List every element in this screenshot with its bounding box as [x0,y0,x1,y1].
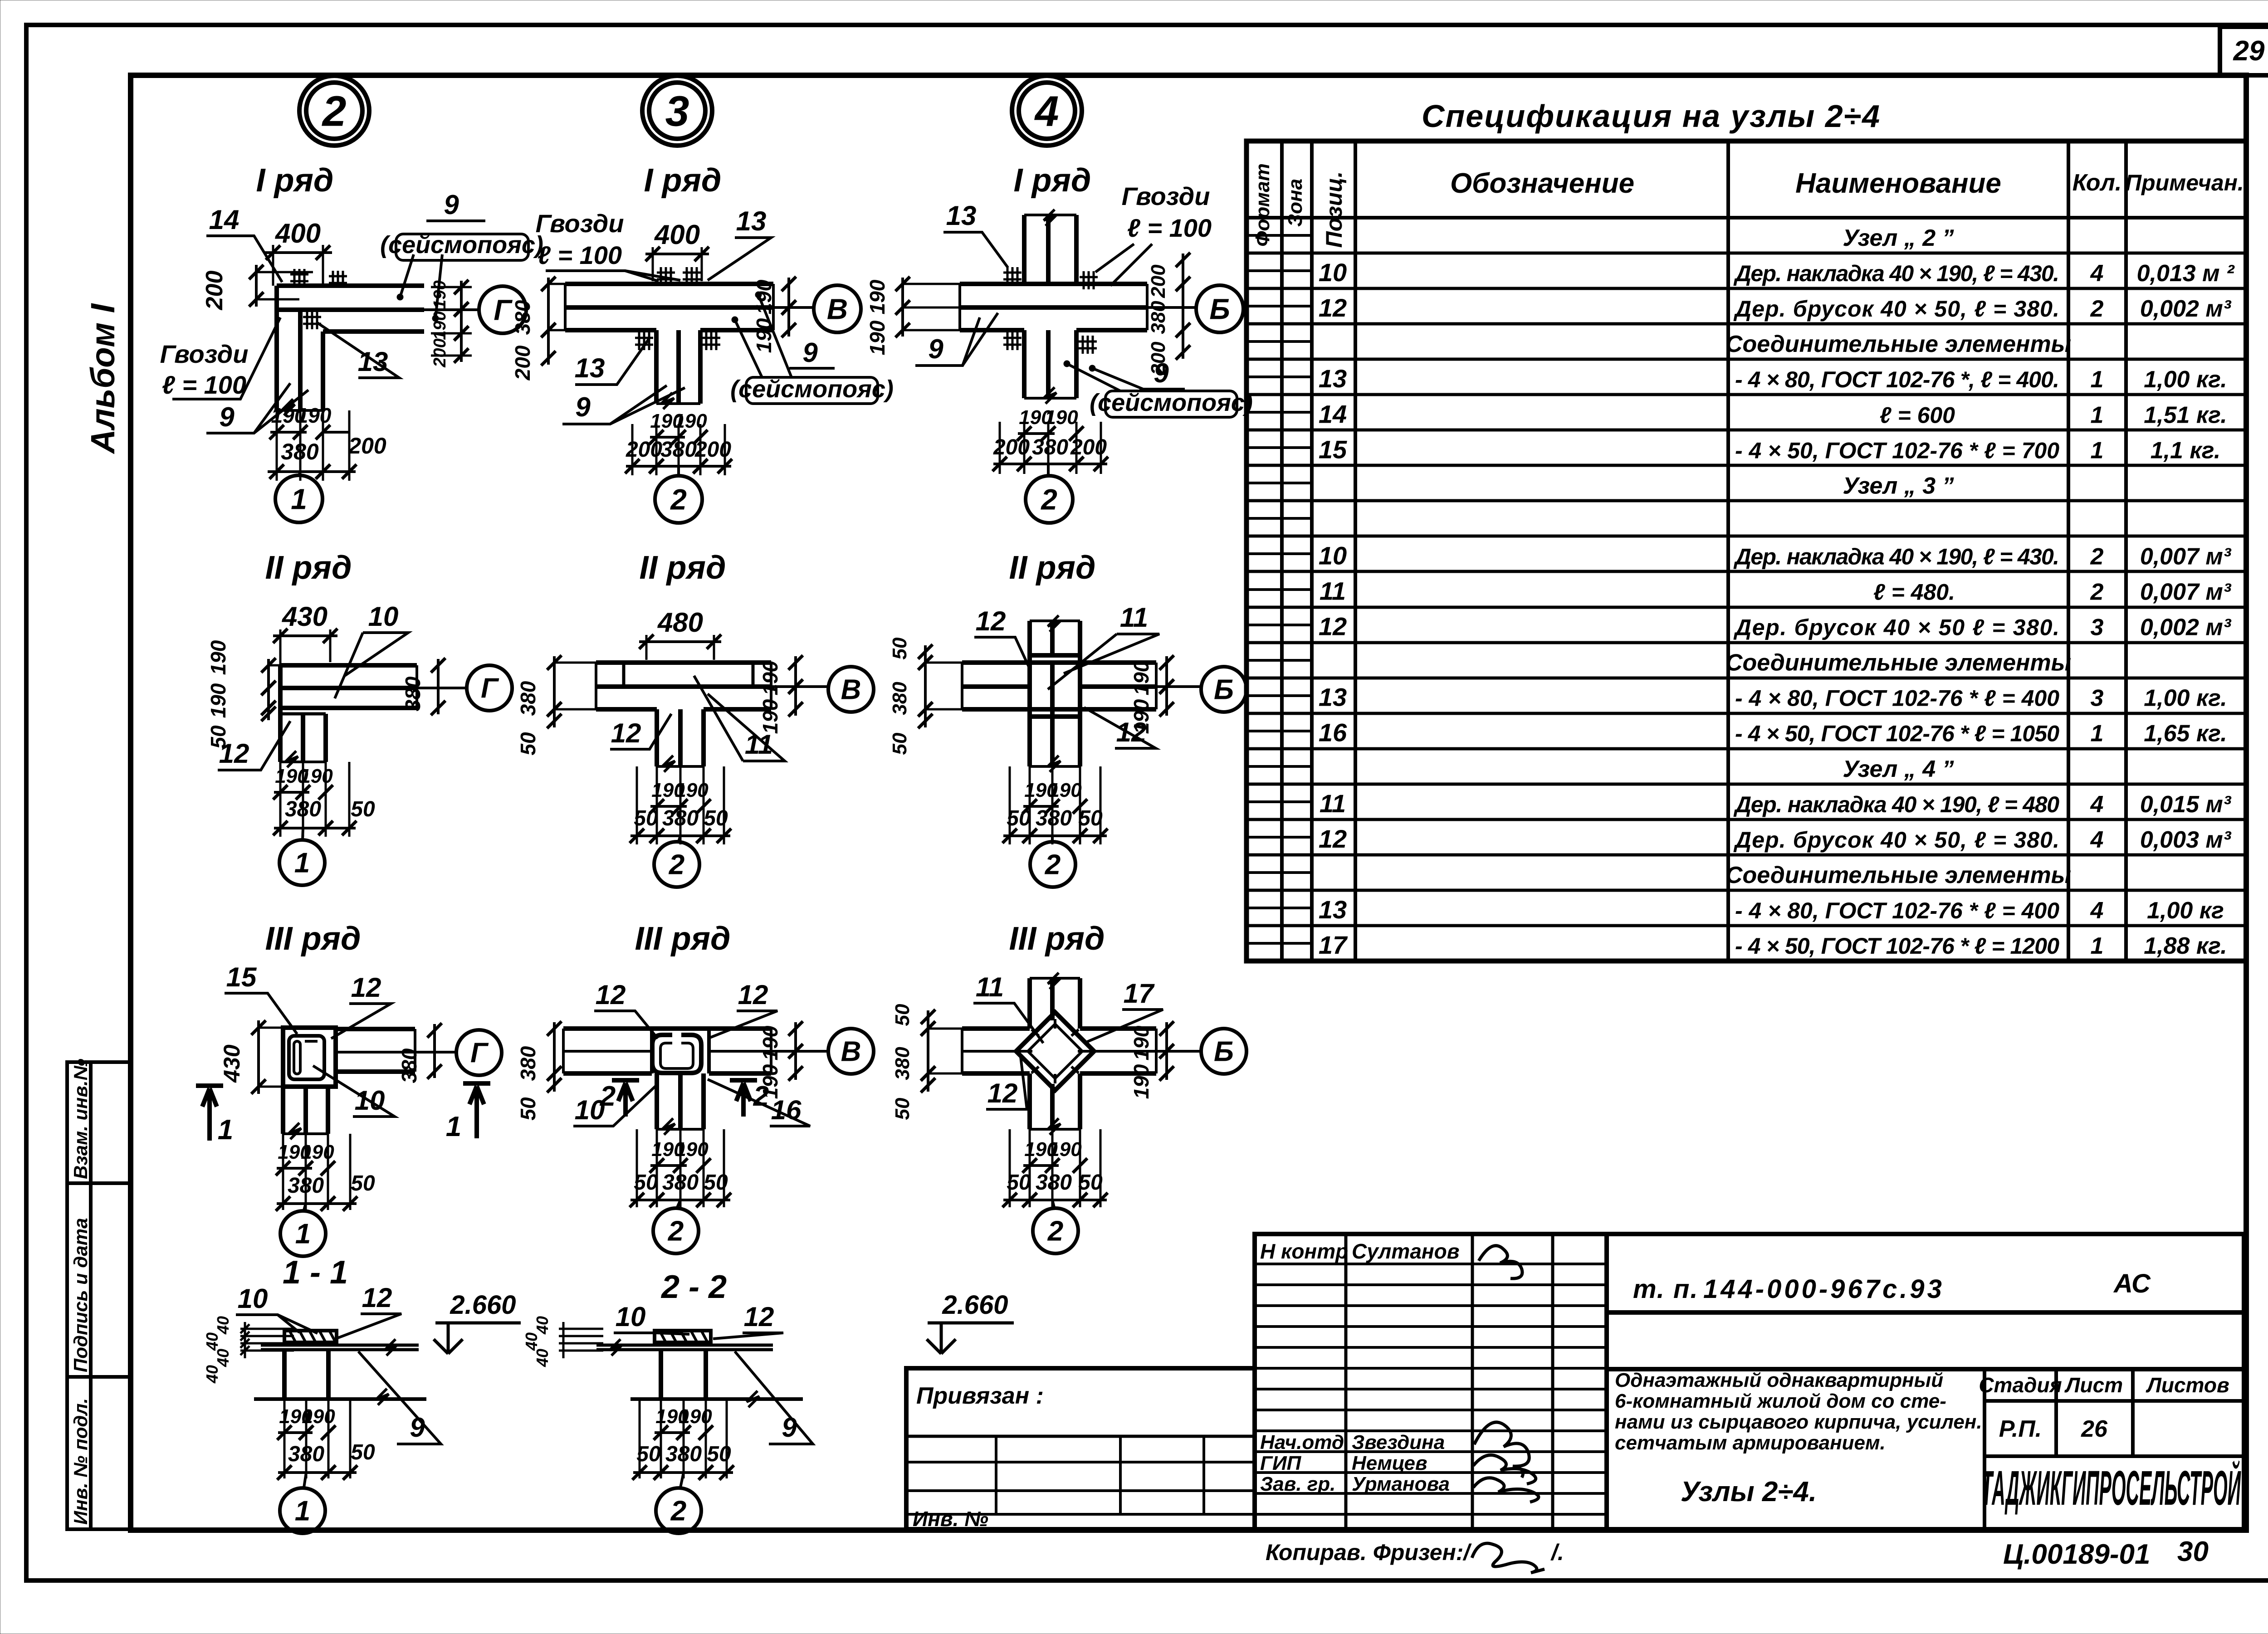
svg-text:Гвозди: Гвозди [536,209,624,238]
svg-text:200: 200 [993,435,1030,459]
detail 3-II tee beams [596,663,771,772]
detail 3-I label 13 left [575,339,649,385]
svg-text:Листов: Листов [2146,1373,2229,1397]
section 2-2 drawing [596,1331,803,1407]
svg-text:Г: Г [470,1038,489,1069]
svg-text:6-комнатный жилой дом со сте-: 6-комнатный жилой дом со сте- [1615,1390,1946,1412]
svg-text:1: 1 [2091,366,2104,393]
svg-text:9: 9 [928,334,943,364]
detail 2-III label 12 [331,972,391,1039]
detail 2-II dim 430 [273,601,337,665]
svg-text:ℓ = 100: ℓ = 100 [162,371,246,399]
svg-text:АС: АС [2113,1269,2151,1298]
svg-text:Альбом I: Альбом I [84,303,122,454]
detail 2-I dim 400 [264,218,332,286]
svg-text:14: 14 [209,205,240,235]
svg-text:2: 2 [668,1216,684,1247]
svg-text:4: 4 [2090,827,2104,853]
svg-text:190: 190 [1129,699,1153,734]
svg-text:Узел „ 4 ”: Узел „ 4 ” [1843,756,1954,782]
detail 4-III label 11 [973,972,1043,1043]
svg-text:1: 1 [2091,933,2104,959]
detail 4-I label 13 [943,200,1008,268]
section 1-1 label 12 [338,1283,401,1338]
svg-text:Гвозди: Гвозди [160,340,249,368]
svg-text:13: 13 [1319,895,1347,924]
svg-text:1,00 кг.: 1,00 кг. [2144,366,2227,393]
detail 2-I seism belt label [380,190,543,322]
detail 3-I tee joint beams [565,267,773,409]
svg-text:2: 2 [670,1496,686,1527]
svg-text:2: 2 [1041,483,1057,516]
svg-text:380: 380 [1036,1171,1072,1195]
detail 4-I cross joint beams [960,210,1147,404]
svg-text:12: 12 [987,1078,1018,1108]
svg-text:0,007 м³: 0,007 м³ [2140,579,2232,605]
detail 3-I left dims 380/200 [511,277,565,380]
svg-text:50: 50 [707,1442,731,1466]
svg-text:2 - 2: 2 - 2 [660,1269,727,1305]
svg-text:2: 2 [2090,543,2104,570]
detail 2-II right dim 380 [401,658,445,715]
detail 2-III section arrows 1 [196,1083,490,1146]
svg-text:380: 380 [511,300,534,335]
svg-text:380: 380 [1147,301,1169,334]
svg-text:9: 9 [1154,358,1169,388]
svg-text:50: 50 [634,806,658,830]
svg-text:190: 190 [758,660,782,695]
svg-text:10: 10 [238,1283,268,1314]
svg-text:4: 4 [1034,87,1059,135]
left stamp boxes [67,1058,131,1529]
svg-text:ТАДЖИКГИПРОСЕЛЬСТРОЙ: ТАДЖИКГИПРОСЕЛЬСТРОЙ [1981,1460,2241,1515]
svg-text:190: 190 [1048,779,1082,801]
svg-text:50: 50 [351,797,375,821]
detail circle 3 [642,76,712,146]
section 1-1 elevation 2.660 [434,1290,521,1354]
svg-text:380: 380 [281,439,319,464]
svg-text:380: 380 [288,1174,324,1198]
detail 2-III axis Г [435,1030,502,1075]
svg-text:190: 190 [297,404,332,427]
svg-text:Позиц.: Позиц. [1321,171,1347,248]
svg-text:15: 15 [226,962,257,992]
svg-text:380: 380 [665,1442,702,1466]
svg-text:200: 200 [694,438,731,462]
svg-text:Ц.00189-01: Ц.00189-01 [2003,1539,2150,1570]
svg-text:190: 190 [675,1138,709,1161]
svg-text:9: 9 [575,392,591,422]
svg-text:40: 40 [522,1332,541,1351]
detail 2-I label 14 [206,205,282,282]
svg-text:50: 50 [704,1171,728,1195]
detail 4-II label 11 top [1048,602,1159,689]
svg-text:13: 13 [1319,364,1347,393]
svg-text:I ряд: I ряд [1014,162,1091,199]
svg-text:ГИП: ГИП [1260,1452,1302,1474]
svg-text:Инв. № подл.: Инв. № подл. [70,1398,91,1525]
svg-text:40: 40 [203,1365,221,1384]
detail 4-II bottom dims [1002,766,1108,844]
svg-text:144-000-967с.93: 144-000-967с.93 [1703,1274,1945,1304]
detail 4-II axis circle 2 [1030,836,1075,887]
svg-text:1,00 кг: 1,00 кг [2147,897,2224,924]
svg-text:12: 12 [351,972,381,1003]
specification table headers [1251,163,2244,248]
svg-text:190: 190 [1129,660,1153,695]
detail 4-I right dims 200/380/200 [1147,253,1190,376]
svg-text:380: 380 [891,1047,914,1080]
svg-text:190: 190 [206,640,230,675]
detail 2-I corner joint beams [277,269,424,415]
svg-text:1: 1 [2091,721,2104,747]
svg-text:40: 40 [533,1316,552,1335]
detail 3-III tee plan joint [563,1029,771,1135]
section 1-1 label 10 [236,1283,318,1333]
detail 3-II axis circle 2 [654,836,699,887]
svg-text:190: 190 [1048,1138,1082,1161]
detail 2-I label 13 [318,323,399,378]
section 2-2 bottom dims [632,1399,734,1480]
svg-text:50: 50 [516,732,540,756]
svg-text:Б: Б [1214,674,1234,706]
detail circle 2 [299,76,369,146]
svg-text:200: 200 [1070,435,1107,459]
detail 4-III cross plan joint [962,973,1156,1135]
detail 3-II left dims 380/50 [516,655,596,756]
section 1-1 bottom dims [277,1399,375,1480]
detail 4-III right dims 190/190 [1129,1021,1174,1099]
svg-text:380: 380 [288,1442,324,1466]
detail 3-III axis В [771,1029,874,1074]
detail 4-I label 9 left [915,313,998,366]
svg-text:380: 380 [516,1046,540,1081]
detail 2-III bottom dims [276,1134,375,1211]
bottom margin notes [1266,1536,2209,1573]
svg-text:190: 190 [206,683,230,718]
detail 4-III left dims 50/380/50 [891,1004,962,1120]
svg-text:2.660: 2.660 [942,1290,1008,1320]
detail 3-II axis В [771,667,874,712]
svg-text:12: 12 [738,980,768,1010]
detail 2-I nails note left [160,317,280,399]
svg-text:190: 190 [675,779,709,801]
svg-text:I ряд: I ряд [644,162,722,199]
svg-text:400: 400 [275,218,321,249]
svg-text:11: 11 [745,729,773,760]
svg-text:Зав. гр.: Зав. гр. [1260,1473,1335,1495]
svg-text:50: 50 [1078,806,1103,830]
svg-text:3: 3 [2091,685,2104,712]
svg-text:50: 50 [891,1004,914,1026]
svg-text:12: 12 [596,980,626,1010]
detail 4-II label 12 top [974,606,1029,667]
svg-text:190: 190 [679,1405,712,1428]
svg-text:40: 40 [214,1349,232,1367]
svg-text:Г: Г [494,293,513,326]
row III titles [265,921,1105,957]
specification table grid [1246,141,2246,961]
svg-text:380: 380 [401,676,425,711]
svg-text:12: 12 [1319,612,1347,641]
svg-text:Соединительные элементы: Соединительные элементы [1725,862,2071,888]
detail 2-II axis Г [417,665,512,711]
svg-text:I ряд: I ряд [256,162,334,199]
svg-text:200: 200 [430,338,450,367]
svg-text:15: 15 [1319,435,1347,463]
svg-text:10: 10 [575,1095,605,1125]
svg-text:11: 11 [1120,602,1148,633]
svg-text:В: В [827,293,848,325]
svg-text:40: 40 [203,1332,221,1351]
detail 3-I nails note [536,209,680,281]
svg-text:12: 12 [362,1283,392,1313]
signature table [1255,1234,1607,1529]
svg-text:- 4 × 80, ГОСТ 102-76 * ℓ =: - 4 × 80, ГОСТ 102-76 * ℓ = 400 [1735,898,2059,923]
detail 3-I seism label [730,292,894,404]
svg-text:50: 50 [351,1171,375,1195]
svg-text:10: 10 [368,601,399,632]
section 2-2 label 10 [614,1302,689,1334]
svg-text:380: 380 [660,438,697,462]
section 2-2 left dims 40x4 [522,1316,603,1367]
svg-text:0,002 м³: 0,002 м³ [2140,615,2232,641]
svg-text:Звездина: Звездина [1352,1431,1445,1454]
svg-text:2: 2 [670,483,687,516]
svg-text:190: 190 [752,318,776,353]
svg-text:Подпись и дата: Подпись и дата [70,1218,91,1372]
svg-text:10: 10 [1319,258,1347,287]
svg-text:9: 9 [444,190,459,220]
detail 3-I bottom dims [625,410,732,475]
svg-text:(сейсмопояс): (сейсмопояс) [1090,389,1253,416]
svg-text:12: 12 [219,738,249,769]
svg-text:400: 400 [654,219,700,250]
section 2-2 axis circle 2 [656,1473,701,1533]
detail 3-III bottom dims [630,1129,731,1207]
section 1-1 drawing [254,1331,426,1405]
svg-text:190: 190 [1045,406,1078,429]
detail 4-II axis Б [1156,667,1246,712]
svg-text:Соединительные элементы: Соединительные элементы [1725,331,2071,357]
svg-text:190: 190 [430,280,450,309]
svg-text:380: 380 [662,806,699,830]
svg-text:- 4 × 50, ГОСТ 102-76 * ℓ =: - 4 × 50, ГОСТ 102-76 * ℓ = 1050 [1735,721,2059,746]
svg-text:12: 12 [976,606,1006,636]
svg-text:190: 190 [1129,1025,1153,1060]
svg-text:1: 1 [446,1111,461,1142]
svg-text:40: 40 [214,1316,232,1335]
svg-text:III ряд: III ряд [635,921,731,957]
svg-text:3: 3 [2091,615,2104,641]
svg-text:200: 200 [348,433,386,458]
main title block frame [1607,1234,2244,1529]
svg-text:Копирав. Фризен:/: Копирав. Фризен:/ [1266,1540,1472,1565]
svg-text:10: 10 [616,1302,646,1332]
detail 2-II corner beams [280,665,417,767]
svg-text:В: В [841,674,861,706]
svg-text:II ряд: II ряд [1009,550,1096,586]
svg-text:Дер. брусок 40 × 50, ℓ = 38: Дер. брусок 40 × 50, ℓ = 380. [1733,296,2059,322]
detail circle 4 [1012,76,1082,146]
detail 2-II label 10 [335,601,408,698]
svg-text:0,003 м³: 0,003 м³ [2140,827,2232,853]
svg-text:13: 13 [1319,683,1347,712]
svg-text:16: 16 [1319,718,1347,747]
detail 2-II left dims 190/190/50 [206,640,280,748]
detail 3-II dim 480 [639,607,721,660]
detail 3-I axis circle 2 [655,466,702,523]
svg-text:1,88 кг.: 1,88 кг. [2144,933,2227,959]
svg-text:Немцев: Немцев [1352,1452,1427,1474]
detail 2-I bottom dims [268,404,386,481]
detail 3-III label 16 [708,1079,810,1126]
svg-text:17: 17 [1319,931,1348,959]
detail 4-II left dims 50/380/50 [889,637,962,755]
svg-text:1: 1 [295,1496,310,1527]
svg-text:Спецификация на узлы 2÷4: Спецификация на узлы 2÷4 [1422,98,1881,134]
row II titles [265,550,1096,586]
svg-text:ℓ = 480.: ℓ = 480. [1873,580,1955,605]
detail 4-I bottom dims [992,406,1108,474]
detail 3-I right dims 190/190 [752,277,796,353]
svg-text:- 4 × 80, ГОСТ 102-76 * ℓ =: - 4 × 80, ГОСТ 102-76 * ℓ = 400 [1735,686,2059,711]
section 1-1 label 9 [358,1351,441,1444]
svg-text:200: 200 [201,271,228,311]
detail 3-I axis В [773,285,861,332]
svg-text:11: 11 [976,972,1004,1002]
detail 4-II cross beams [962,615,1156,772]
svg-text:0,002 м³: 0,002 м³ [2140,296,2232,322]
svg-text:Соединительные элементы: Соединительные элементы [1725,650,2071,676]
detail 2-III left dim 430 [219,1020,283,1094]
svg-text:190: 190 [1129,1064,1153,1099]
svg-text:380: 380 [1036,806,1072,830]
detail 3-II bottom dims [630,766,731,844]
svg-text:II ряд: II ряд [640,550,726,586]
svg-text:Н контр: Н контр [1260,1239,1348,1263]
svg-text:ℓ = 600: ℓ = 600 [1880,402,1955,428]
svg-text:Обозначение: Обозначение [1450,168,1634,199]
svg-text:190: 190 [758,699,782,734]
svg-text:480: 480 [657,607,703,638]
svg-text:29: 29 [2233,35,2265,67]
svg-text:11: 11 [1320,789,1346,818]
svg-text:Узлы 2÷4.: Узлы 2÷4. [1681,1476,1817,1507]
svg-text:- 4 × 50, ГОСТ 102-76 * ℓ =: - 4 × 50, ГОСТ 102-76 * ℓ = 700 [1735,438,2059,463]
svg-text:2: 2 [1045,849,1061,881]
svg-text:т. п.: т. п. [1633,1274,1699,1304]
svg-text:12: 12 [1319,293,1347,322]
svg-text:190: 190 [758,1025,782,1060]
svg-text:190: 190 [302,1405,335,1428]
svg-text:Кол.: Кол. [2072,170,2122,196]
detail 2-III label 10 [313,1066,395,1117]
svg-text:50: 50 [636,1442,661,1466]
svg-text:1: 1 [218,1114,233,1146]
svg-text:Однаэтажный однаквартирный: Однаэтажный однаквартирный [1615,1369,1943,1391]
detail 3-III labels 12 [594,980,777,1039]
svg-text:1 - 1: 1 - 1 [283,1254,348,1291]
detail 4-II label 12 right [1084,707,1156,748]
svg-text:200: 200 [1147,264,1169,298]
svg-text:190: 190 [430,311,450,340]
svg-text:Б: Б [1209,293,1230,325]
section 2-2 label 12 [713,1302,783,1339]
svg-text:3: 3 [665,87,689,135]
svg-text:1,51 кг.: 1,51 кг. [2144,402,2227,428]
svg-text:- 4 × 50, ГОСТ 102-76 * ℓ =: - 4 × 50, ГОСТ 102-76 * ℓ = 1200 [1735,933,2059,959]
detail 2-III label 15 [225,962,297,1034]
svg-text:50: 50 [1007,806,1031,830]
svg-text:1: 1 [294,848,310,879]
svg-text:12: 12 [744,1302,774,1332]
svg-text:200: 200 [626,438,662,462]
detail 4-I left dims 190/190 [865,277,960,355]
svg-text:4: 4 [2090,260,2104,287]
svg-text:50: 50 [516,1097,540,1121]
detail 3-III label 10 [573,1086,655,1126]
detail 3-III axis circle 2 [653,1200,699,1254]
svg-text:4: 4 [2090,897,2104,924]
section 1-1 title [283,1254,348,1291]
svg-text:Гвозди: Гвозди [1122,182,1210,210]
svg-text:Б: Б [1214,1036,1234,1068]
svg-text:380: 380 [889,682,911,715]
section 2-2 elevation 2.660 [927,1290,1014,1354]
svg-text:1: 1 [295,1219,311,1250]
svg-text:4: 4 [2090,791,2104,818]
title block texts [1615,1269,2241,1515]
svg-text:26: 26 [2081,1416,2108,1442]
detail 4-III label 17 [1084,978,1163,1043]
svg-text:Нач.отд: Нач.отд [1260,1431,1344,1454]
svg-text:Урманова: Урманова [1352,1473,1450,1495]
svg-text:12: 12 [1319,824,1347,853]
svg-text:50: 50 [704,806,728,830]
detail 3-III right dims 190/190 [758,1021,803,1099]
svg-text:Наименование: Наименование [1795,168,2001,199]
detail 2-I dim 200 left [201,265,313,310]
svg-text:2: 2 [1047,1216,1063,1247]
detail 3-I label 9 left [562,385,685,424]
svg-text:10: 10 [1319,541,1347,570]
svg-text:9: 9 [802,337,818,368]
svg-text:II ряд: II ряд [265,550,352,586]
detail 2-I label 9 left [206,383,308,433]
svg-text:190: 190 [674,410,707,432]
svg-text:нами из сырцавого кирпича, уси: нами из сырцавого кирпича, усилен. [1615,1411,1982,1433]
svg-text:190: 190 [865,279,889,314]
svg-text:40: 40 [533,1349,552,1367]
specification table rows [1319,225,2235,959]
svg-text:Дер. брусок 40 × 50, ℓ = 3: Дер. брусок 40 × 50, ℓ = 380. [1733,827,2059,853]
svg-text:2: 2 [322,87,347,135]
svg-text:0,013 м ²: 0,013 м ² [2137,260,2235,287]
svg-text:1: 1 [2091,437,2104,463]
svg-text:380: 380 [397,1048,421,1083]
row I titles [256,162,1091,199]
svg-text:2: 2 [2090,579,2104,605]
section 2-2 label 9 [735,1351,813,1444]
svg-text:Султанов: Султанов [1352,1239,1460,1263]
svg-text:Р.П.: Р.П. [1999,1416,2042,1442]
svg-text:13: 13 [946,200,977,231]
svg-text:Дер. брусок 40 × 50 ℓ = 3: Дер. брусок 40 × 50 ℓ = 380. [1733,615,2059,640]
svg-text:190: 190 [865,320,889,355]
svg-text:Привязан :: Привязан : [916,1383,1044,1409]
svg-text:2.660: 2.660 [450,1290,516,1320]
